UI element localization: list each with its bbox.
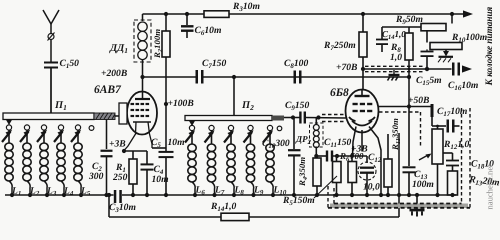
arrow to power board xyxy=(462,65,472,72)
shielded link to 6AB7 grid xyxy=(94,113,115,120)
coil L2 xyxy=(26,130,28,143)
ground on shield xyxy=(393,70,395,75)
svg-text:+50В: +50В xyxy=(408,95,430,106)
junction C15 xyxy=(425,67,429,71)
svg-text:300: 300 xyxy=(88,171,104,182)
wire cathode +3B xyxy=(351,144,368,155)
capacitor C2 xyxy=(101,150,113,152)
coil L8 xyxy=(230,131,232,145)
label К колодке питания xyxy=(484,6,494,86)
capacitor C11 xyxy=(316,155,326,157)
svg-text:C9150: C9150 xyxy=(285,100,309,112)
wire +70B shielded xyxy=(361,67,365,71)
svg-text:C155m: C155m xyxy=(416,75,442,87)
svg-text:C1710m: C1710m xyxy=(437,106,467,118)
6Б8 grids xyxy=(353,103,358,105)
resistor R12 potentiometer xyxy=(437,126,439,129)
wire bias line xyxy=(108,195,110,217)
resistor R3 xyxy=(204,11,229,18)
watermark xyxy=(485,164,495,210)
capacitor C1 xyxy=(44,62,58,64)
tube U1 6АВ7 envelope xyxy=(127,92,157,135)
switch bar П1 xyxy=(3,113,94,120)
shield dashes xyxy=(379,111,421,113)
6АВ7 anode xyxy=(135,98,150,100)
coil L7 xyxy=(211,131,213,145)
svg-text:C11150: C11150 xyxy=(324,137,352,149)
coil L5 xyxy=(77,130,79,143)
capacitor C5 xyxy=(159,151,174,153)
svg-text:C7150: C7150 xyxy=(202,58,226,70)
switch contact 8 xyxy=(228,125,233,130)
switch contact 2 xyxy=(24,125,29,130)
resistor R2 xyxy=(165,14,167,31)
6АВ7 grids xyxy=(131,103,135,105)
svg-text:К колодке питания: К колодке питания xyxy=(484,6,494,86)
6АВ7 grid side box xyxy=(119,103,127,124)
switch contact 5 xyxy=(75,125,80,130)
svg-text:C10300: C10300 xyxy=(262,138,290,150)
resistor R4 xyxy=(316,156,318,158)
6Б8 diode plates xyxy=(349,117,356,121)
svg-text:+3В: +3В xyxy=(109,139,126,150)
svg-text:700: 700 xyxy=(350,151,364,161)
feedthrough plate xyxy=(431,104,434,117)
switch contact 4 xyxy=(58,125,63,130)
B+ rail wire xyxy=(143,13,205,15)
svg-text:R950m: R950m xyxy=(395,14,423,26)
svg-text:nauchebe.net: nauchebe.net xyxy=(485,164,495,210)
wire xyxy=(233,77,235,116)
resistor R11 xyxy=(387,134,389,159)
capacitor C10 xyxy=(293,118,295,150)
coil L9 xyxy=(250,131,252,145)
svg-text:100m: 100m xyxy=(412,179,434,190)
wire AVC return xyxy=(398,133,400,217)
label R5 with pointer xyxy=(314,176,337,198)
svg-text:C1610m: C1610m xyxy=(448,80,478,92)
resistor R6 xyxy=(351,156,353,162)
coil L10 xyxy=(269,131,271,145)
contact circle xyxy=(89,126,94,131)
resistor R5 xyxy=(336,156,338,162)
svg-text:+100В: +100В xyxy=(167,98,194,109)
svg-text:R310m: R310m xyxy=(232,1,260,13)
switch contact 1 xyxy=(6,125,11,130)
svg-text:R7250m: R7250m xyxy=(323,40,356,52)
svg-text:C8100: C8100 xyxy=(284,58,308,70)
wire xyxy=(152,147,166,149)
svg-text:10,0: 10,0 xyxy=(363,182,380,193)
resistor R9 xyxy=(451,14,453,24)
shield box dashed xyxy=(461,108,463,204)
potentiometer wiper to chassis xyxy=(445,50,447,54)
ground xyxy=(416,195,418,210)
П1 wiper arrow xyxy=(8,120,10,122)
switch contact 7 xyxy=(209,125,214,130)
capacitor C16 xyxy=(452,63,455,76)
wire xyxy=(106,120,108,150)
wire +100B screen line xyxy=(165,57,167,152)
shield dashes around grid wire xyxy=(322,114,344,116)
capacitor C17 xyxy=(431,117,433,126)
resistor R10 xyxy=(426,31,428,43)
resistor R8 xyxy=(408,27,410,33)
svg-text:10m: 10m xyxy=(167,137,184,148)
wire AVC line xyxy=(143,76,196,78)
svg-text:C610m: C610m xyxy=(194,25,221,37)
capacitor C6 xyxy=(186,14,188,25)
tube U2 6Б8 envelope xyxy=(346,90,379,133)
svg-text:+70В: +70В xyxy=(336,62,358,73)
svg-text:C150: C150 xyxy=(59,58,79,70)
svg-text:6Б8: 6Б8 xyxy=(330,87,349,99)
switch contact 10 xyxy=(267,125,272,130)
ground bus wire xyxy=(5,194,114,196)
antenna xyxy=(43,10,59,62)
svg-text:1,0: 1,0 xyxy=(390,52,402,63)
switch contact 3 xyxy=(41,125,46,130)
svg-text:+200В: +200В xyxy=(101,68,128,79)
svg-text:R10100m: R10100m xyxy=(451,32,487,44)
switch contact 9 xyxy=(248,125,253,130)
wire xyxy=(142,14,144,21)
capacitor C7 xyxy=(196,70,199,84)
IF transformer ДР2 xyxy=(315,118,317,125)
svg-text:250: 250 xyxy=(112,172,128,183)
capacitor C12 electrolytic xyxy=(366,156,368,163)
capacitor C3 xyxy=(114,190,117,203)
П2 wiper arrow xyxy=(191,121,193,123)
wire anode node xyxy=(142,60,144,92)
switch contact 6 xyxy=(189,125,194,130)
IF transformer DD1 xyxy=(134,20,151,62)
resistor R14 xyxy=(221,213,249,220)
6Б8 anode xyxy=(355,95,370,97)
svg-text:6АВ7: 6АВ7 xyxy=(94,84,122,96)
capacitor C15 xyxy=(426,50,428,51)
capacitor C18 xyxy=(443,152,453,154)
6АВ7 cathode xyxy=(133,121,151,123)
resistor R7 xyxy=(362,14,364,32)
resistor R13 xyxy=(448,171,458,195)
wire xyxy=(50,68,52,114)
coil L3 xyxy=(43,130,45,143)
resistor R1 xyxy=(132,151,134,159)
capacitor C14 xyxy=(382,26,409,28)
capacitor C4 xyxy=(146,151,148,164)
6Б8 cathode xyxy=(352,121,372,126)
switch bar П2 xyxy=(185,116,272,121)
capacitor C13 xyxy=(408,107,410,167)
node +3B xyxy=(109,139,126,150)
capacitor C8 xyxy=(294,71,297,84)
svg-text:C310m: C310m xyxy=(109,202,136,214)
wire +50B xyxy=(378,106,430,108)
coil L1 xyxy=(8,130,10,143)
contact circle xyxy=(277,126,282,131)
coil L4 xyxy=(60,130,62,143)
capacitor C9 xyxy=(284,117,300,119)
svg-text:R5150m: R5150m xyxy=(282,195,315,207)
coil L6 xyxy=(191,131,193,145)
